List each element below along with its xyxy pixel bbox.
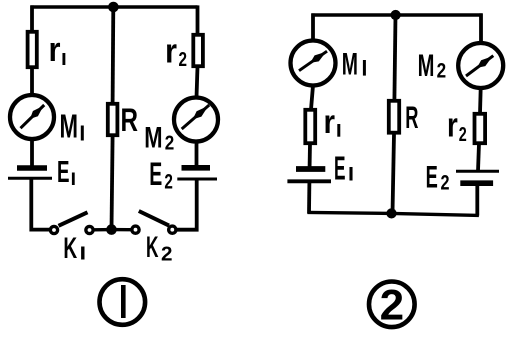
meter M1 (circuit 1)	[10, 95, 54, 139]
wire: M1 to E1	[30, 139, 34, 167]
wire: M2 to r2	[478, 88, 483, 114]
svg-text:E: E	[334, 150, 346, 187]
resistor r1 (circuit 2)	[305, 110, 315, 143]
meter M1 (circuit 2)	[291, 41, 336, 86]
meter M2 (circuit 2)	[458, 43, 503, 88]
node: bottom junction of circuit 2	[386, 208, 396, 218]
svg-text:M: M	[342, 46, 358, 82]
svg-text:E: E	[426, 159, 438, 195]
wire: middle branch bottom (R to junction)	[112, 136, 113, 230]
svg-text:E: E	[149, 156, 162, 192]
wire: E2 down to switch K2	[176, 179, 197, 230]
battery E1 (circuit 1)	[17, 165, 47, 171]
resistor R (circuit 2)	[389, 101, 399, 133]
wire: r1 to E1	[308, 143, 312, 166]
svg-text:R: R	[405, 99, 418, 135]
wire: E2 to bottom bus	[475, 183, 479, 215]
resistor r1	[28, 32, 37, 67]
wire: M2 to E2	[195, 142, 199, 167]
wire: top bus of circuit 2	[312, 13, 483, 16]
svg-text:r: r	[49, 31, 61, 69]
wire: middle branch top (junction to R)	[111, 7, 116, 104]
switch K2	[169, 226, 176, 233]
wire: E1 to bottom bus	[307, 181, 311, 213]
node: bottom junction of circuit 1	[106, 224, 117, 235]
wire: middle branch bottom (R to junction)	[393, 134, 395, 213]
node: top junction of circuit 1	[108, 2, 119, 13]
battery E2 (circuit 2)	[456, 170, 499, 173]
battery E1 (circuit 2)	[296, 166, 325, 172]
svg-text:r: r	[447, 107, 458, 145]
resistor r2 (circuit 2)	[475, 114, 486, 143]
svg-text:2: 2	[380, 282, 405, 330]
wire: r2 to E2	[478, 143, 479, 171]
switch K1	[50, 226, 57, 233]
wire: bottom bus of circuit 2	[308, 212, 479, 215]
wire: M1 to r1	[311, 86, 313, 110]
meter M2 (circuit 1)	[174, 98, 218, 142]
wire: top-right corner to M2	[479, 13, 483, 43]
svg-text:r: r	[165, 33, 177, 71]
wire: r1 to M1	[30, 68, 34, 96]
svg-text:M: M	[144, 122, 162, 155]
wire: r2 to M2	[197, 67, 198, 98]
svg-text:M: M	[418, 47, 435, 83]
label: circled 1	[100, 279, 146, 325]
svg-text:K: K	[146, 231, 159, 264]
svg-text:r: r	[324, 103, 336, 140]
svg-text:2: 2	[164, 171, 173, 194]
wire: top bus of circuit 1	[31, 5, 198, 8]
label: circled 2	[369, 282, 415, 330]
wire: top of left branch (to r1)	[30, 5, 34, 31]
wire: junction to K2	[112, 228, 132, 231]
svg-text:R: R	[121, 102, 139, 138]
wire: middle branch top (junction to R)	[394, 15, 395, 101]
wire: top of right branch (to r2)	[196, 5, 200, 34]
svg-text:2: 2	[179, 49, 188, 71]
wire: E1 down to switch K1	[31, 178, 50, 230]
svg-text:K: K	[63, 232, 77, 265]
battery E2 (circuit 1)	[182, 165, 211, 171]
svg-text:2: 2	[161, 243, 173, 265]
svg-text:E: E	[57, 155, 70, 189]
svg-text:2: 2	[459, 124, 467, 146]
svg-text:M: M	[60, 108, 79, 145]
wire: K1 to bottom junction	[93, 228, 112, 232]
resistor R (circuit 1)	[108, 104, 118, 135]
wire: top-left corner to M1	[311, 13, 315, 41]
resistor r2 (circuit 1)	[193, 35, 203, 66]
svg-text:2: 2	[165, 133, 175, 155]
svg-text:2: 2	[441, 171, 450, 194]
svg-text:2: 2	[437, 60, 447, 83]
node: top junction of circuit 2	[391, 10, 401, 20]
